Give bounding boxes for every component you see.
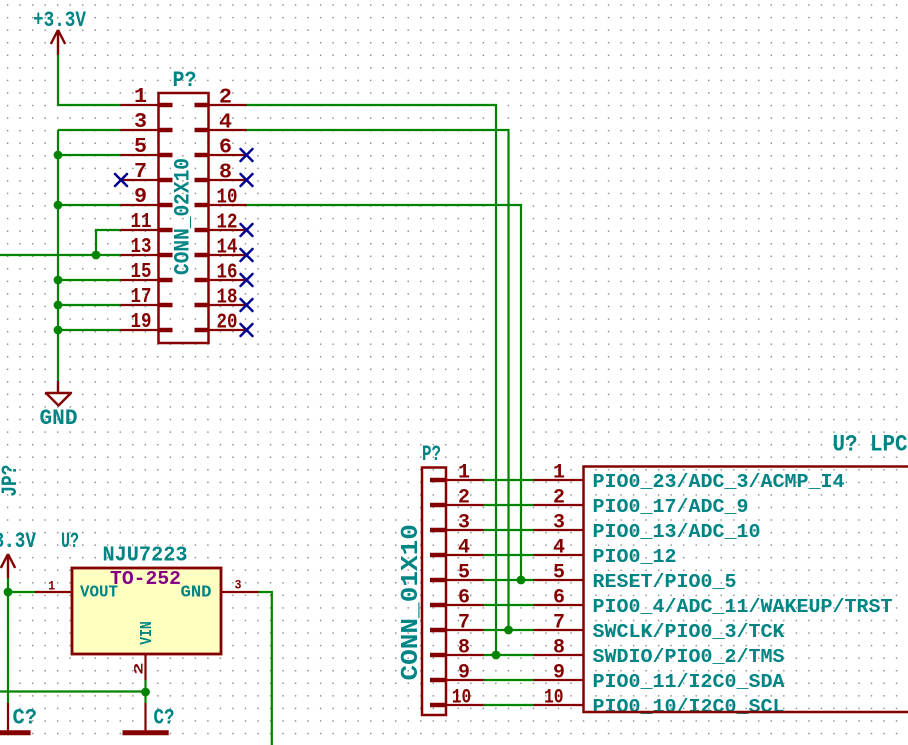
pin 15 (left) bbox=[121, 260, 173, 284]
wire pin2 to junction bbox=[144, 680, 146, 692]
svg-text:GND: GND bbox=[40, 406, 78, 431]
no-connect pin 7 bbox=[115, 174, 127, 186]
svg-text:6: 6 bbox=[458, 587, 470, 610]
pin 3 (left) bbox=[121, 110, 173, 134]
LPC pin 4 bbox=[534, 537, 584, 560]
svg-text:11: 11 bbox=[131, 210, 152, 234]
no-connect pin 20 bbox=[241, 324, 253, 336]
wire +3.3V to VOUT bbox=[8, 578, 35, 592]
no-connect pin 16 bbox=[241, 274, 253, 286]
LPC pin 10 bbox=[534, 687, 584, 710]
svg-text:PIO0_12: PIO0_12 bbox=[593, 546, 677, 568]
svg-text:6: 6 bbox=[553, 587, 565, 610]
LPC pin 8 bbox=[534, 637, 584, 660]
svg-text:VIN: VIN bbox=[137, 621, 156, 645]
svg-text:GND: GND bbox=[181, 583, 212, 602]
svg-text:20: 20 bbox=[217, 311, 238, 335]
svg-text:3: 3 bbox=[553, 512, 565, 535]
svg-text:1: 1 bbox=[458, 462, 470, 485]
wire GND rail vertical bbox=[57, 130, 59, 381]
svg-text:1: 1 bbox=[134, 85, 147, 109]
svg-text:PIO0_11/I2C0_SDA: PIO0_11/I2C0_SDA bbox=[593, 671, 785, 693]
pin 2 VIN bbox=[132, 654, 147, 680]
svg-text:16: 16 bbox=[217, 261, 238, 285]
no-connect pin 14 bbox=[241, 249, 253, 261]
svg-text:CONN_01X10: CONN_01X10 bbox=[398, 524, 425, 681]
wire conn pin 4 to LPC bbox=[484, 554, 534, 556]
pin 11 (left) bbox=[121, 210, 173, 234]
junction (58,305) bbox=[54, 301, 63, 310]
LPC pin 9 bbox=[534, 662, 584, 685]
pin 8 (CONN_01X10) bbox=[430, 637, 484, 660]
svg-text:13: 13 bbox=[131, 235, 152, 259]
svg-text:14: 14 bbox=[217, 236, 238, 260]
wire pin10 net (to RESET) bbox=[247, 205, 522, 580]
regulator U1 NJU7223 body bbox=[72, 568, 221, 654]
svg-text:18: 18 bbox=[217, 286, 238, 310]
svg-text:5: 5 bbox=[134, 135, 147, 159]
svg-text:1: 1 bbox=[48, 579, 55, 594]
svg-text:10: 10 bbox=[544, 687, 564, 710]
svg-text:8: 8 bbox=[458, 637, 470, 660]
wire +3.3V to pin 1 bbox=[58, 55, 121, 105]
junction (58,280) bbox=[54, 276, 63, 285]
svg-text:2: 2 bbox=[132, 662, 147, 675]
wire VIN horizontal bbox=[0, 690, 146, 692]
svg-text:4: 4 bbox=[458, 537, 470, 560]
pin 1 (CONN_01X10) bbox=[430, 462, 484, 485]
wire to pin 11 bbox=[96, 230, 121, 255]
LPC pin 2 bbox=[534, 487, 584, 510]
wire to pin 19 bbox=[58, 329, 121, 331]
pin 9 (left) bbox=[121, 185, 173, 209]
svg-text:PIO0_13/ADC_10: PIO0_13/ADC_10 bbox=[593, 521, 761, 543]
no-connect pin 18 bbox=[241, 299, 253, 311]
junction RESET bbox=[517, 576, 526, 585]
ground GND (top-left) bbox=[40, 381, 78, 431]
pin 5 (left) bbox=[121, 135, 173, 159]
wire to pin 13 from left edge bbox=[0, 254, 121, 256]
svg-text:7: 7 bbox=[458, 612, 470, 635]
wire conn pin 7 to LPC bbox=[484, 629, 534, 631]
svg-text:8: 8 bbox=[219, 161, 232, 185]
svg-text:2: 2 bbox=[553, 487, 565, 510]
pin 2 (right) bbox=[195, 86, 247, 110]
wire pin4 net (to SWCLK) bbox=[247, 130, 509, 630]
svg-text:CONN_02X10: CONN_02X10 bbox=[170, 158, 195, 275]
wire to pin 5 bbox=[58, 154, 121, 156]
svg-text:17: 17 bbox=[131, 285, 152, 309]
no-connect pin 8 bbox=[241, 174, 253, 186]
svg-text:SWDIO/PIO0_2/TMS: SWDIO/PIO0_2/TMS bbox=[593, 646, 785, 668]
pin 16 (right) bbox=[195, 261, 247, 285]
LPC pin 7 bbox=[534, 612, 584, 635]
capacitor C2 (middle) bbox=[123, 703, 175, 733]
svg-text:6: 6 bbox=[219, 136, 232, 160]
svg-text:NJU7223: NJU7223 bbox=[103, 544, 188, 568]
LPC pin 6 bbox=[534, 587, 584, 610]
svg-text:3: 3 bbox=[235, 578, 242, 593]
svg-text:1: 1 bbox=[553, 462, 565, 485]
svg-text:+3.3V: +3.3V bbox=[0, 529, 37, 554]
wire pin2 net (to SWDIO) bbox=[247, 105, 497, 655]
pin 1 VOUT bbox=[35, 579, 72, 594]
svg-text:8: 8 bbox=[553, 637, 565, 660]
svg-text:2: 2 bbox=[219, 86, 232, 110]
wire conn pin 5 to LPC bbox=[484, 579, 534, 581]
wire to pin 3 bbox=[58, 129, 121, 131]
pin 14 (right) bbox=[195, 236, 247, 260]
wire conn pin 6 to LPC bbox=[484, 604, 534, 606]
LPC pin 3 bbox=[534, 512, 584, 535]
junction VOUT bbox=[4, 588, 13, 597]
power flag +3.3V (bottom-left) bbox=[0, 529, 37, 579]
pin 7 (CONN_01X10) bbox=[430, 612, 484, 635]
svg-text:7: 7 bbox=[134, 160, 147, 184]
wire to pin 15 bbox=[58, 279, 121, 281]
junction (96,255) bbox=[92, 251, 101, 260]
wire to pin 17 bbox=[58, 304, 121, 306]
LPC pin 1 bbox=[534, 462, 584, 485]
junction (58,155) bbox=[54, 151, 63, 160]
junction (58,205) bbox=[54, 201, 63, 210]
svg-text:PIO0_17/ADC_9: PIO0_17/ADC_9 bbox=[593, 496, 749, 518]
svg-text:9: 9 bbox=[134, 185, 147, 209]
wire conn pin 3 to LPC bbox=[484, 529, 534, 531]
pin 9 (CONN_01X10) bbox=[430, 662, 484, 685]
pin 3 GND bbox=[221, 578, 259, 593]
pin 5 (CONN_01X10) bbox=[430, 562, 484, 585]
pin 1 (left) bbox=[121, 85, 173, 109]
junction (58,330) bbox=[54, 326, 63, 335]
pin 2 (CONN_01X10) bbox=[430, 487, 484, 510]
svg-text:U? LPC: U? LPC bbox=[833, 432, 908, 459]
svg-text:P?: P? bbox=[422, 442, 441, 467]
power flag +3.3V (top) bbox=[33, 8, 87, 56]
wire to pin 9 bbox=[58, 204, 121, 206]
wire junction to C2 bbox=[144, 692, 146, 703]
pin 10 (CONN_01X10) bbox=[430, 687, 484, 710]
svg-text:5: 5 bbox=[553, 562, 565, 585]
IC U? LPC body (clipped right) bbox=[584, 467, 908, 713]
svg-text:VOUT: VOUT bbox=[80, 583, 118, 602]
wire conn pin 10 to LPC bbox=[484, 704, 534, 706]
pin 18 (right) bbox=[195, 286, 247, 310]
wire down to C1 bbox=[7, 592, 9, 703]
junction SWCLK bbox=[504, 626, 513, 635]
pin 20 (right) bbox=[195, 311, 247, 335]
svg-text:2: 2 bbox=[458, 487, 470, 510]
svg-text:U?: U? bbox=[61, 529, 79, 554]
pin 19 (left) bbox=[121, 310, 173, 334]
svg-text:PIO0_4/ADC_11/WAKEUP/TRST: PIO0_4/ADC_11/WAKEUP/TRST bbox=[593, 596, 893, 618]
pin 8 (right) bbox=[195, 161, 247, 185]
svg-text:4: 4 bbox=[219, 111, 232, 135]
svg-text:P?: P? bbox=[173, 68, 197, 93]
pin 13 (left) bbox=[121, 235, 173, 259]
svg-text:9: 9 bbox=[458, 662, 470, 685]
svg-text:10: 10 bbox=[217, 186, 238, 210]
wire conn pin 2 to LPC bbox=[484, 504, 534, 506]
svg-text:SWCLK/PIO0_3/TCK: SWCLK/PIO0_3/TCK bbox=[593, 621, 785, 643]
svg-text:JP?: JP? bbox=[0, 465, 23, 497]
svg-text:TO-252: TO-252 bbox=[110, 568, 181, 590]
wire conn pin 1 to LPC bbox=[484, 479, 534, 481]
pin 4 (right) bbox=[195, 111, 247, 135]
LPC pin 5 bbox=[534, 562, 584, 585]
pin 12 (right) bbox=[195, 211, 247, 235]
capacitor C1 (left) bbox=[0, 703, 37, 733]
svg-text:5: 5 bbox=[458, 562, 470, 585]
wire conn pin 8 to LPC bbox=[484, 654, 534, 656]
svg-text:PIO0_10/I2C0_SCL: PIO0_10/I2C0_SCL bbox=[593, 696, 785, 718]
wire GND pin3 to right rail bbox=[259, 592, 272, 745]
svg-text:12: 12 bbox=[217, 211, 238, 235]
pin 4 (CONN_01X10) bbox=[430, 537, 484, 560]
pin 3 (CONN_01X10) bbox=[430, 512, 484, 535]
connector P1 CONN_02X10 body bbox=[159, 93, 209, 343]
svg-text:10: 10 bbox=[452, 687, 472, 710]
svg-text:3: 3 bbox=[458, 512, 470, 535]
svg-text:RESET/PIO0_5: RESET/PIO0_5 bbox=[593, 571, 737, 593]
junction VIN bbox=[141, 688, 150, 697]
svg-text:C?: C? bbox=[13, 705, 38, 730]
svg-text:7: 7 bbox=[553, 612, 565, 635]
svg-text:9: 9 bbox=[553, 662, 565, 685]
pin 10 (right) bbox=[195, 186, 247, 210]
connector P2 CONN_01X10 body bbox=[422, 468, 446, 716]
no-connect pin 6 bbox=[241, 149, 253, 161]
svg-text:+3.3V: +3.3V bbox=[33, 8, 87, 33]
pin 6 (CONN_01X10) bbox=[430, 587, 484, 610]
svg-text:3: 3 bbox=[134, 110, 147, 134]
pin 7 (left) bbox=[121, 160, 173, 184]
svg-text:4: 4 bbox=[553, 537, 565, 560]
junction SWDIO bbox=[492, 651, 501, 660]
svg-text:15: 15 bbox=[131, 260, 152, 284]
svg-text:C?: C? bbox=[154, 705, 175, 730]
wire conn pin 9 to LPC bbox=[484, 679, 534, 681]
pin 6 (right) bbox=[195, 136, 247, 160]
pin 17 (left) bbox=[121, 285, 173, 309]
no-connect pin 12 bbox=[241, 224, 253, 236]
svg-text:PIO0_23/ADC_3/ACMP_I4: PIO0_23/ADC_3/ACMP_I4 bbox=[593, 471, 845, 493]
svg-text:19: 19 bbox=[131, 310, 152, 334]
